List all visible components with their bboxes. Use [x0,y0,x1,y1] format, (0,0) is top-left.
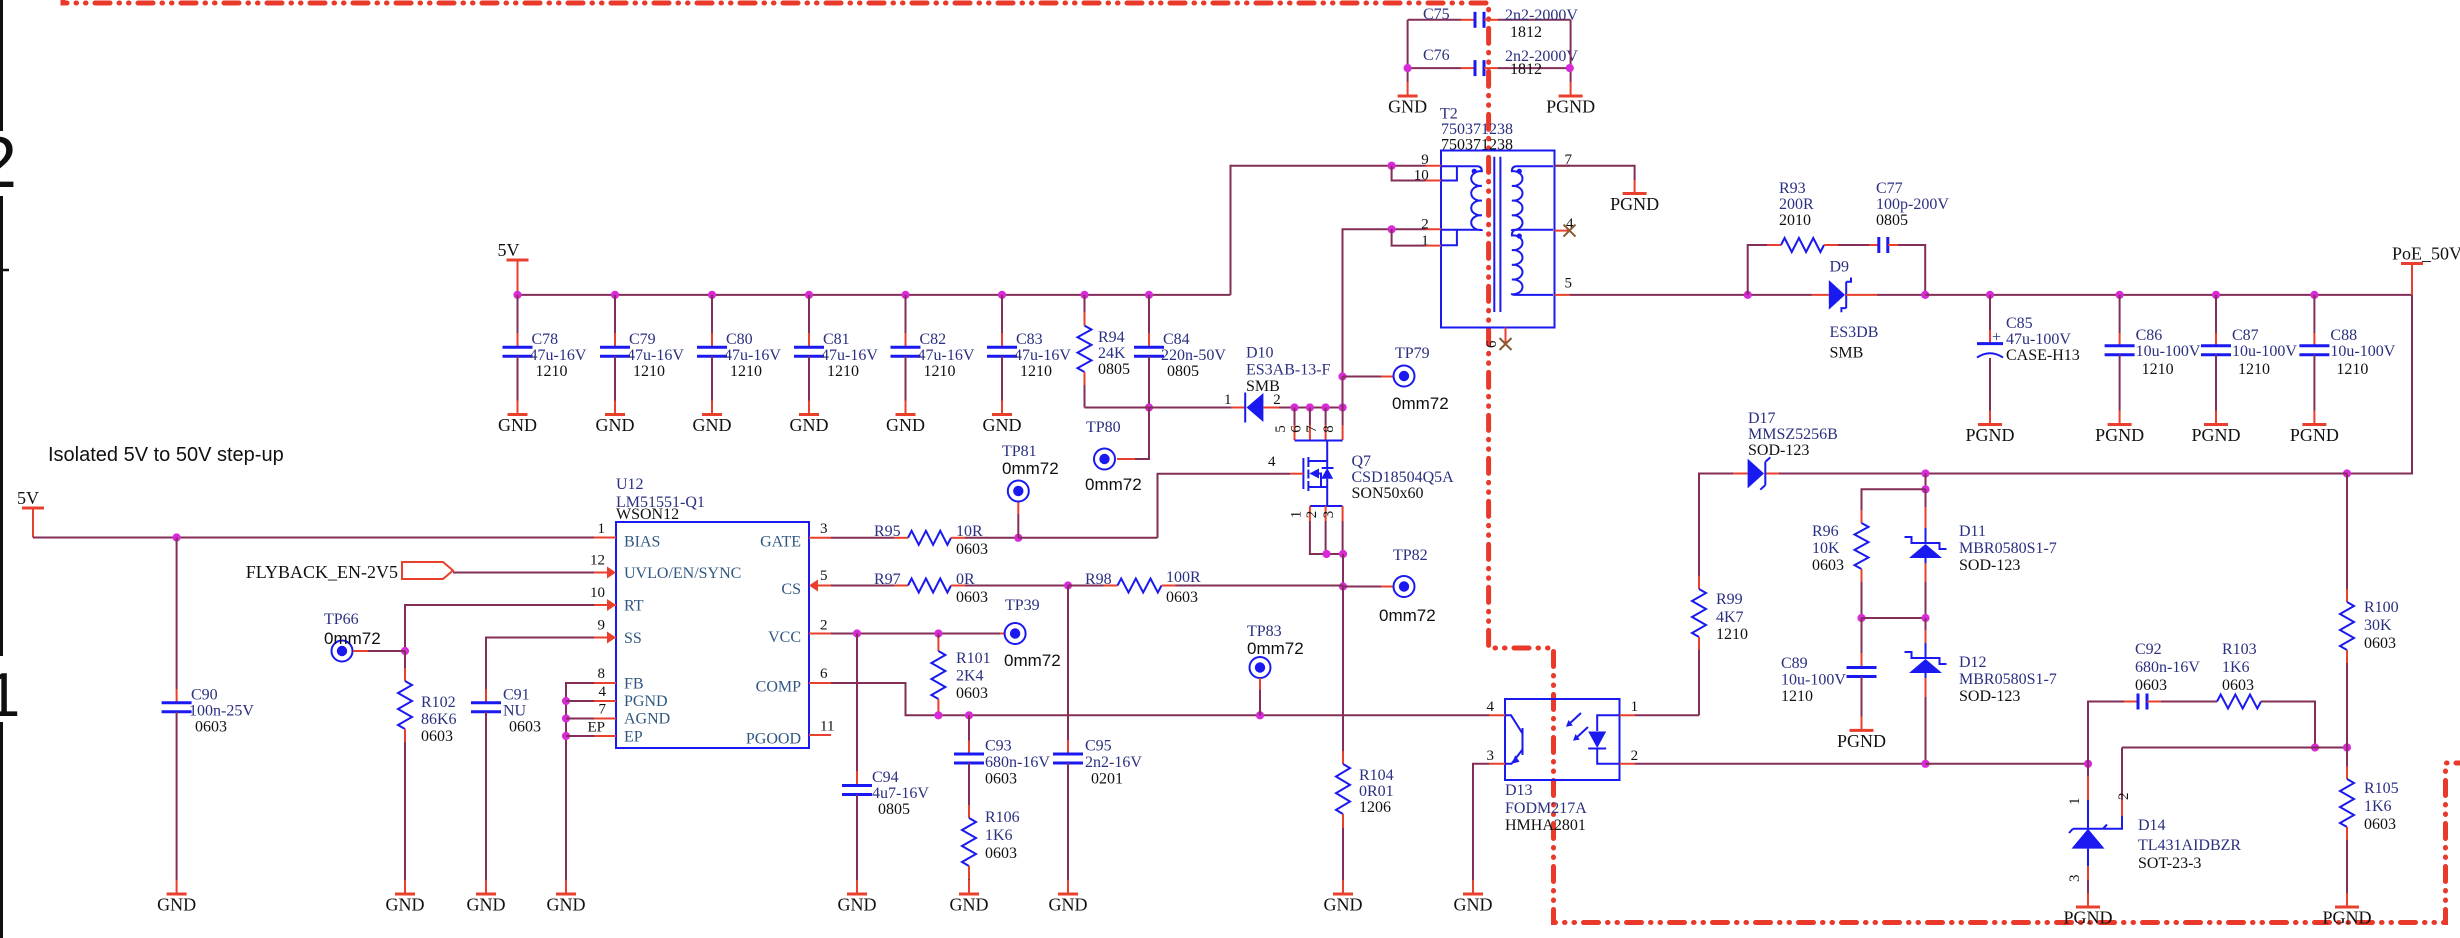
svg-text:7: 7 [1304,425,1320,433]
svg-text:0603: 0603 [2135,677,2167,694]
svg-text:C91: C91 [503,687,530,704]
svg-text:47u-16V: 47u-16V [821,347,878,364]
T2 secondary winding lower [1512,230,1553,295]
capacitor C84 220n-50V [1145,291,1153,299]
capacitor C80 47u-16V [708,291,716,299]
svg-text:3: 3 [820,521,828,537]
svg-text:47u-16V: 47u-16V [1014,347,1071,364]
ground GND (C90) [167,893,187,896]
svg-text:10u-100V: 10u-100V [1781,672,1846,689]
wire VCC node [831,633,1000,635]
svg-text:6: 6 [1288,425,1304,433]
svg-text:UVLO/EN/SYNC: UVLO/EN/SYNC [624,565,741,582]
capacitor C78 47u-16V [513,291,521,299]
svg-text:C81: C81 [823,331,850,348]
svg-text:3: 3 [1321,511,1337,519]
resistor R94 24K [1080,291,1088,299]
svg-text:GND: GND [386,895,425,915]
snubber capacitor C77 100p-200V [1838,244,1869,246]
svg-text:5V: 5V [498,240,520,260]
op-amp U12 LM51551-Q1 [616,522,809,748]
svg-text:0603: 0603 [1812,557,1844,574]
capacitor C89 10u-100V [1861,618,1863,653]
diode D17 MMSZ5256B zener [1765,473,1779,475]
power PGND (T2 pin7) [1623,192,1647,195]
svg-text:WSON12: WSON12 [616,506,679,523]
wire transformer primary low side to Q7 [1343,229,1426,376]
resistor R98 100R [1064,581,1072,589]
svg-text:TP80: TP80 [1086,419,1121,436]
transformer T2 750371238 [1441,151,1555,328]
svg-text:PGND: PGND [624,693,668,710]
svg-text:R95: R95 [874,523,901,540]
testpoint TP66 0mm72 [332,641,353,662]
svg-text:PGND: PGND [2063,908,2112,928]
svg-text:6: 6 [1484,340,1500,348]
resistor R102 86K6 [404,651,406,668]
wire output bus to PoE_50V [1925,294,2412,296]
svg-text:0603: 0603 [956,589,988,606]
svg-text:0603: 0603 [2364,816,2396,833]
testpoint TP39 0mm72 [1005,623,1026,644]
svg-text:R96: R96 [1812,523,1839,540]
svg-text:NU: NU [503,703,527,720]
wire Q7 gate [1290,473,1303,475]
T2 primary polarity dot [1472,169,1477,174]
svg-text:1210: 1210 [1781,688,1813,705]
svg-text:0mm72: 0mm72 [1002,459,1059,478]
svg-text:TP39: TP39 [1005,597,1040,614]
svg-text:1K6: 1K6 [2364,798,2392,815]
svg-text:C83: C83 [1016,331,1043,348]
svg-text:FLYBACK_EN-2V5: FLYBACK_EN-2V5 [246,562,398,582]
svg-text:R93: R93 [1779,180,1806,197]
svg-text:D10: D10 [1246,345,1274,362]
capacitor C86 10u-100V [2116,291,2124,299]
svg-text:C79: C79 [629,331,656,348]
svg-text:1210: 1210 [730,363,762,380]
svg-text:10u-100V: 10u-100V [2136,343,2201,360]
capacitor C94 4u7-16V [856,634,858,772]
diode D9 ES3DB [1812,294,1829,296]
svg-text:D17: D17 [1748,410,1776,427]
svg-text:C85: C85 [2006,315,2033,332]
wire D17 rail junctions [1921,469,1929,477]
svg-text:MBR0580S1-7: MBR0580S1-7 [1959,540,2057,557]
sheet border left edge [0,0,3,938]
wire R96/D11 low node [1857,614,1865,622]
svg-text:1812: 1812 [1510,24,1542,41]
testpoint TP81 0mm72 [1014,534,1022,542]
svg-text:GATE: GATE [760,534,801,551]
svg-text:PGND: PGND [1837,731,1886,751]
svg-text:1210: 1210 [1020,363,1052,380]
svg-text:Isolated 5V to 50V step-up: Isolated 5V to 50V step-up [48,444,284,466]
svg-text:1: 1 [1288,511,1304,519]
svg-text:GND: GND [547,895,586,915]
T2 secondary winding upper [1512,166,1553,230]
svg-text:SOT-23-3: SOT-23-3 [2138,855,2201,872]
wire COMP line [831,683,1489,715]
svg-text:0603: 0603 [2364,635,2396,652]
svg-text:C80: C80 [726,331,753,348]
svg-text:2: 2 [2116,793,2132,801]
wire D17 anode to R99 [1699,474,1733,577]
svg-text:0mm72: 0mm72 [1247,639,1304,658]
svg-text:1: 1 [1631,699,1639,715]
svg-text:10u-100V: 10u-100V [2330,343,2395,360]
svg-text:PGND: PGND [2290,425,2339,445]
svg-text:4: 4 [1487,699,1495,715]
svg-text:0mm72: 0mm72 [324,629,381,648]
svg-text:2: 2 [0,123,17,203]
D13 light arrows [1568,713,1588,739]
svg-text:1K6: 1K6 [985,827,1013,844]
svg-text:D14: D14 [2138,817,2166,834]
svg-text:5: 5 [1273,425,1289,433]
svg-text:R103: R103 [2222,641,2257,658]
svg-text:9: 9 [598,618,606,634]
svg-text:0603: 0603 [985,771,1017,788]
svg-text:200R: 200R [1779,196,1814,213]
svg-text:D13: D13 [1505,782,1533,799]
svg-text:C87: C87 [2232,327,2259,344]
capacitor C91 NU [485,689,487,703]
svg-text:4K7: 4K7 [1716,609,1744,626]
capacitor C82 47u-16V [901,291,909,299]
T2 pin 4 no-connect [1564,225,1576,237]
capacitor C95 2n2-16V [1067,586,1069,741]
svg-text:220n-50V: 220n-50V [1161,347,1226,364]
svg-text:TP66: TP66 [324,611,359,628]
svg-text:750371238: 750371238 [1441,137,1513,154]
svg-text:EP: EP [624,729,643,746]
svg-text:10u-100V: 10u-100V [2232,343,2297,360]
svg-text:4u7-16V: 4u7-16V [872,785,929,802]
svg-text:C92: C92 [2135,641,2162,658]
svg-text:0805: 0805 [1167,363,1199,380]
svg-text:SOD-123: SOD-123 [1959,688,2020,705]
svg-text:0mm72: 0mm72 [1004,651,1061,670]
svg-text:PGND: PGND [1965,425,2014,445]
ground GND (C78) [508,413,528,416]
svg-text:2n2-16V: 2n2-16V [1085,754,1142,771]
svg-text:C94: C94 [872,769,899,786]
svg-text:R100: R100 [2364,599,2399,616]
svg-text:ES3AB-13-F: ES3AB-13-F [1246,362,1331,379]
capacitor C90 100n-25V [173,533,181,541]
svg-text:CSD18504Q5A: CSD18504Q5A [1352,469,1455,486]
U12 left pin stubs [594,538,616,737]
svg-text:0201: 0201 [1091,771,1123,788]
svg-text:10R: 10R [956,523,983,540]
svg-text:R94: R94 [1098,329,1125,346]
power PGND (D14) [2076,906,2100,909]
svg-text:SMB: SMB [1830,345,1864,362]
svg-text:3: 3 [2067,875,2083,883]
svg-text:5: 5 [820,568,828,584]
svg-text:2: 2 [820,618,828,634]
svg-text:47u-16V: 47u-16V [627,347,684,364]
svg-text:1210: 1210 [2336,361,2368,378]
wire R103 to divider node [2261,702,2315,748]
svg-text:GND: GND [693,415,732,435]
svg-text:R98: R98 [1085,571,1112,588]
svg-text:2: 2 [1421,217,1429,233]
svg-text:11: 11 [820,719,834,735]
svg-text:TP82: TP82 [1393,547,1428,564]
svg-text:FB: FB [624,676,644,693]
T2 pin 6 no-connect [1500,338,1512,350]
T2 core [1494,157,1500,312]
svg-text:D9: D9 [1830,259,1850,276]
svg-text:24K: 24K [1098,345,1126,362]
svg-text:PGND: PGND [2322,908,2371,928]
svg-text:GND: GND [1324,895,1363,915]
svg-text:8: 8 [1321,425,1337,433]
svg-text:8: 8 [598,666,606,682]
svg-text:9: 9 [1421,152,1429,168]
svg-text:1: 1 [1224,392,1232,408]
svg-text:3: 3 [1487,748,1495,764]
ground GND (U12) [556,893,576,896]
svg-text:C90: C90 [191,687,218,704]
svg-text:SS: SS [624,630,642,647]
T2 pin 10 step [1442,166,1457,180]
ground GND (C75/C76) [1398,95,1418,98]
wire output bus corner to D17 rail [2347,295,2412,474]
svg-text:ES3DB: ES3DB [1830,324,1879,341]
resistor R103 1K6 [2217,695,2261,709]
wire FB/PGND/AGND/EP to GND [566,683,594,880]
resistor R104 0R01 shunt [1342,587,1344,752]
svg-text:0R: 0R [956,571,975,588]
svg-text:1: 1 [0,661,20,730]
svg-text:680n-16V: 680n-16V [2135,659,2200,676]
svg-text:PGND: PGND [2191,425,2240,445]
resistor R99 4K7 [1698,576,1700,589]
svg-text:CS: CS [781,581,801,598]
svg-text:1210: 1210 [2238,361,2270,378]
svg-text:0603: 0603 [195,719,227,736]
svg-text:GND: GND [1454,895,1493,915]
T2 pin2/1 junction [1388,225,1396,233]
svg-text:0805: 0805 [878,801,910,818]
diode D10 ES3AB-13-F [1231,407,1232,409]
T2 primary winding [1442,166,1482,230]
zone tick [0,269,9,272]
svg-text:1210: 1210 [2142,361,2174,378]
wire bus to transformer primary [1231,166,1426,295]
ground GND (C95) [1058,893,1078,896]
capacitor C85 47u-100V polarized [1986,291,1994,299]
svg-text:SOD-123: SOD-123 [1959,557,2020,574]
wire C75/C76 left to GND [1407,20,1409,82]
svg-text:R105: R105 [2364,780,2399,797]
svg-text:1210: 1210 [633,363,665,380]
ground GND (C81) [799,413,819,416]
svg-text:0603: 0603 [421,728,453,745]
resistor R96 10K [1861,510,1863,523]
optocoupler D13 FODM217A [1505,699,1620,780]
svg-text:0603: 0603 [2222,677,2254,694]
ground GND (R102) [395,893,415,896]
wire R94/C84 to D10 anode [1085,407,1231,409]
svg-text:100R: 100R [1166,569,1201,586]
svg-text:GND: GND [157,895,196,915]
wire R96 branch [1862,489,1926,510]
svg-text:GND: GND [983,415,1022,435]
svg-text:2: 2 [1304,511,1320,519]
T2 pin stubs [1426,166,1442,246]
svg-text:1812: 1812 [1510,61,1542,78]
svg-text:C76: C76 [1423,47,1450,64]
svg-text:5V: 5V [17,488,39,508]
svg-text:0603: 0603 [509,719,541,736]
svg-text:SON50x60: SON50x60 [1352,485,1424,502]
svg-text:0603: 0603 [956,541,988,558]
svg-text:0603: 0603 [956,685,988,702]
power PGND (C87) [2204,423,2228,426]
testpoint TP79 0mm72 [1343,376,1382,378]
capacitor C93 680n-16V [968,715,970,740]
wire RT to R102 [405,605,594,651]
wire 5V bus [518,294,1231,296]
svg-text:100n-25V: 100n-25V [189,703,254,720]
svg-text:750371238: 750371238 [1441,121,1513,138]
svg-text:PGND: PGND [2095,425,2144,445]
svg-text:GND: GND [1049,895,1088,915]
capacitor C76 2n2-2000V [1408,67,1461,69]
svg-text:COMP: COMP [756,679,801,696]
power 5V (controller) [22,507,44,510]
svg-text:C86: C86 [2136,327,2163,344]
svg-text:2: 2 [1631,748,1639,764]
svg-text:47u-100V: 47u-100V [2006,331,2071,348]
svg-text:C75: C75 [1423,6,1450,23]
svg-text:12: 12 [590,553,605,569]
svg-text:R104: R104 [1359,767,1394,784]
svg-text:0603: 0603 [1166,589,1198,606]
wire SS to C91 [486,638,594,690]
wire port to UVLO [453,572,594,574]
D14 ref pin [2103,816,2122,829]
svg-text:PoE_50V: PoE_50V [2392,244,2460,264]
svg-text:D11: D11 [1959,523,1986,540]
power PGND (R105) [2335,906,2359,909]
ground GND (C79) [605,413,625,416]
svg-text:C82: C82 [920,331,947,348]
capacitor C87 10u-100V [2212,291,2220,299]
ground GND (R106) [959,893,979,896]
svg-text:2n2-2000V: 2n2-2000V [1505,7,1578,24]
ground GND (C91) [476,893,496,896]
svg-text:MMSZ5256B: MMSZ5256B [1748,426,1838,443]
U12 right pin stubs [809,538,831,735]
svg-text:PGND: PGND [1610,194,1659,214]
testpoint TP82 0mm72 [1343,586,1381,588]
svg-text:1: 1 [598,521,606,537]
svg-text:C88: C88 [2330,327,2357,344]
svg-text:FODM217A: FODM217A [1505,800,1587,817]
svg-text:R106: R106 [985,809,1020,826]
svg-text:2: 2 [1273,392,1281,408]
power PoE_50V [2401,262,2423,265]
svg-text:0R01: 0R01 [1359,783,1394,800]
svg-text:GND: GND [498,415,537,435]
svg-text:RT: RT [624,598,644,615]
svg-text:1210: 1210 [1716,626,1748,643]
power PGND (C86) [2108,423,2132,426]
svg-text:U12: U12 [616,476,644,493]
svg-text:AGND: AGND [624,711,670,728]
U12 input arrows [607,567,616,579]
svg-text:+: + [1992,329,2001,346]
T2 secondary polarity dots [1517,169,1522,174]
diode D11 MBR0580S1-7 [1925,489,1927,507]
svg-text:HMHA2801: HMHA2801 [1505,817,1586,834]
svg-text:EP: EP [587,720,605,736]
testpoint TP83 0mm72 [1250,657,1271,678]
svg-text:1210: 1210 [536,363,568,380]
svg-text:GND: GND [790,415,829,435]
wire C75/C76 right to PGND [1570,20,1572,82]
svg-text:T2: T2 [1440,106,1458,123]
svg-text:Q7: Q7 [1352,453,1372,470]
svg-text:0805: 0805 [1098,361,1130,378]
svg-text:7: 7 [599,702,607,718]
svg-text:PGOOD: PGOOD [746,731,801,748]
svg-text:4: 4 [599,684,607,700]
svg-text:R102: R102 [421,694,456,711]
svg-text:R101: R101 [956,650,991,667]
svg-text:47u-16V: 47u-16V [530,347,587,364]
testpoint TP80 0mm72 [1094,449,1115,470]
svg-text:86K6: 86K6 [421,711,457,728]
ground GND (C82) [896,413,916,416]
capacitor C79 47u-16V [611,291,619,299]
svg-text:GND: GND [1388,97,1427,117]
svg-text:C77: C77 [1876,180,1903,197]
wire C92 branch [2088,702,2124,764]
svg-text:SOD-123: SOD-123 [1748,442,1809,459]
capacitor C88 10u-100V [2310,291,2318,299]
svg-text:VCC: VCC [768,629,801,646]
power 5V (cap bank) [507,259,529,262]
svg-text:47u-16V: 47u-16V [918,347,975,364]
capacitor C75 2n2-2000V [1408,19,1461,21]
svg-text:0mm72: 0mm72 [1085,475,1142,494]
svg-text:1210: 1210 [924,363,956,380]
svg-text:2K4: 2K4 [956,668,984,685]
shunt regulator D14 TL431AIDBZR [2087,764,2089,776]
svg-text:C84: C84 [1163,331,1190,348]
transistor Q7 CSD18504Q5A [1290,403,1298,411]
power PGND (C89) [1850,729,1874,732]
svg-text:2010: 2010 [1779,212,1811,229]
wire D13 pin1 to R99 [1635,714,1699,716]
T2 pin 1 step [1442,230,1457,246]
svg-text:6: 6 [820,666,828,682]
svg-text:10: 10 [590,585,605,601]
svg-text:GND: GND [950,895,989,915]
resistor R95 10R [831,537,894,539]
svg-text:5: 5 [1565,276,1573,292]
svg-text:GND: GND [838,895,877,915]
wire T2 pin7 to PGND [1555,166,1635,180]
svg-text:100p-200V: 100p-200V [1876,196,1949,213]
svg-text:10K: 10K [1812,540,1840,557]
